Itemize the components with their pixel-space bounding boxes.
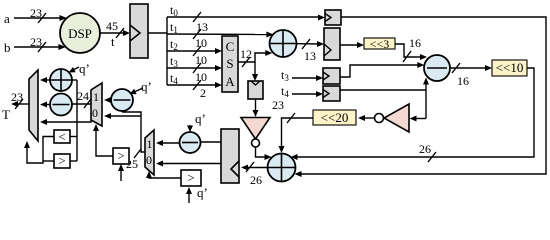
- wire R12 to inverter: [253, 99, 259, 117]
- svg-text:t: t: [111, 34, 115, 49]
- wire <<3 output (16): [395, 36, 427, 62]
- wire REGB output to subtractor U8: [201, 141, 222, 143]
- shifter <<10: [492, 60, 527, 76]
- wire t3: [167, 54, 222, 84]
- comparator CMP3: [181, 170, 208, 203]
- wire REG4 output: [340, 78, 429, 122]
- node t4 stub: [281, 84, 323, 99]
- wire U11 output to T-mux: [40, 77, 50, 83]
- svg-text:12: 12: [240, 47, 252, 61]
- svg-text:q’: q’: [197, 185, 208, 200]
- svg-text:24: 24: [77, 89, 89, 103]
- wire t2: [167, 37, 222, 67]
- mux M1: [91, 83, 102, 126]
- adder U11 (plus circle left): [50, 61, 90, 91]
- register REG3 (t3 pipeline): [323, 68, 340, 84]
- svg-text:C: C: [226, 39, 235, 54]
- wire CMP2 to mux M1 select: [93, 124, 113, 156]
- svg-text:q’: q’: [79, 61, 90, 76]
- svg-text:23: 23: [30, 6, 42, 20]
- svg-text:S: S: [226, 56, 233, 71]
- subtractor U9 (minus circle q'2): [111, 79, 152, 111]
- wire value bus to T-mux (mux M1 corner tap): [40, 80, 91, 161]
- wire REGB output to mux M2 input 0: [156, 161, 221, 167]
- svg-text:0: 0: [92, 106, 98, 120]
- svg-text:<<20: <<20: [321, 110, 349, 125]
- wire REG1 feedback loop: [295, 17, 547, 177]
- svg-text:16: 16: [457, 74, 469, 88]
- register REGt: [130, 4, 148, 58]
- svg-text:10: 10: [195, 53, 207, 67]
- wire U9 output to mux M1 input 1: [104, 97, 111, 103]
- wire CSA output (12): [238, 47, 272, 81]
- wire REGt output to fanout bus: [148, 17, 167, 85]
- svg-text:13: 13: [304, 49, 316, 63]
- register REGB (bottom mirrored register): [221, 129, 239, 183]
- svg-text:a: a: [4, 11, 10, 26]
- svg-text:>: >: [187, 170, 194, 185]
- inverter U5 (horizontal NOT): [358, 104, 409, 132]
- mux M2: [145, 130, 154, 175]
- svg-text:b: b: [4, 40, 11, 55]
- svg-text:10: 10: [195, 70, 207, 84]
- svg-text:0: 0: [146, 153, 152, 167]
- wire T output (23): [2, 90, 29, 122]
- node a: [4, 6, 67, 26]
- wire comparator outputs to M0 select: [24, 137, 54, 164]
- shifter <<20: [313, 110, 356, 125]
- wire <<10 feedback loop (26): [291, 68, 535, 162]
- CSA compressor U2: [222, 36, 238, 92]
- register R12: [248, 81, 263, 99]
- svg-text:<: <: [58, 129, 65, 144]
- register REG1 (t0 pipeline): [325, 10, 341, 25]
- wire t4: [167, 71, 222, 100]
- wire U8 output to mux M2 input 1: [156, 140, 180, 146]
- svg-text:10: 10: [195, 36, 207, 50]
- svg-text:T: T: [2, 107, 10, 122]
- wire a input: [14, 17, 61, 19]
- svg-text:23: 23: [272, 98, 284, 112]
- wire adder U7 output (26): [241, 162, 268, 187]
- wire comparator inputs bracket: [70, 137, 77, 162]
- svg-text:>: >: [58, 153, 65, 168]
- comparator CMP1b (greater-than box): [54, 153, 70, 168]
- register REG4 (t4 pipeline): [323, 86, 340, 101]
- svg-text:1: 1: [93, 90, 99, 104]
- wire b input: [14, 46, 60, 48]
- svg-text:23: 23: [30, 35, 42, 49]
- wire t1: [167, 20, 273, 50]
- svg-text:26: 26: [419, 142, 431, 156]
- svg-text:q’: q’: [141, 79, 152, 94]
- node b: [4, 35, 66, 55]
- subtractor U8 (minus circle q'3): [180, 111, 206, 153]
- register REG2 (sum pipeline): [324, 28, 340, 60]
- wire U10 output to T-mux: [40, 102, 50, 108]
- svg-text:>: >: [117, 148, 124, 163]
- wire adder U3 output (13): [297, 39, 325, 63]
- svg-text:<<10: <<10: [496, 60, 524, 75]
- adder U3 (XOR-add circle top): [270, 30, 297, 57]
- inverter U6 (vertical NOT): [241, 118, 272, 161]
- svg-text:DSP: DSP: [68, 26, 92, 41]
- svg-text:16: 16: [409, 36, 421, 50]
- wire <<20 output (23): [272, 98, 313, 153]
- wire subtractor output (16): [450, 63, 492, 88]
- svg-text:1: 1: [147, 137, 153, 151]
- shifter <<3: [364, 37, 395, 51]
- wire REG2 output: [340, 42, 364, 48]
- subtractor U4 (right minus circle): [424, 55, 450, 81]
- svg-text:q’: q’: [195, 111, 206, 126]
- svg-text:A: A: [225, 74, 235, 89]
- svg-text:<<3: <<3: [370, 37, 390, 51]
- wire CMP3 to mux M2 select: [146, 171, 181, 178]
- svg-text:2: 2: [200, 86, 206, 100]
- wire t0: [167, 3, 325, 34]
- svg-text:26: 26: [250, 173, 262, 187]
- comparator CMP2: [113, 148, 129, 181]
- svg-text:23: 23: [11, 90, 23, 104]
- wire mux M2 output (25): [104, 110, 145, 171]
- svg-text:45: 45: [106, 19, 118, 33]
- wire DSP output t (45): [100, 19, 130, 49]
- mux M0 (T output trapezoid): [29, 70, 38, 141]
- node t3 stub: [281, 68, 323, 83]
- comparator CMP1a (less-than box): [54, 129, 70, 144]
- wire mux M1 output (24): [72, 89, 91, 108]
- subtractor U10 (minus circle left): [50, 94, 72, 116]
- wire REG3 output: [340, 62, 424, 77]
- adder U7 (bottom XOR-add circle): [268, 154, 296, 182]
- DSP multiplier U1: [60, 13, 100, 53]
